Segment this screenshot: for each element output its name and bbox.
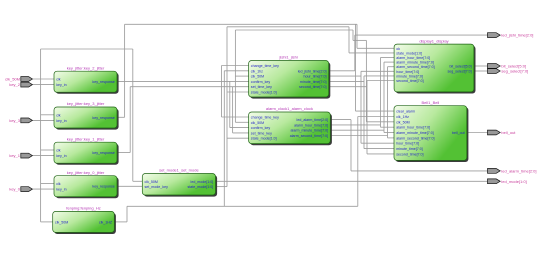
svg-text:key_jitter:key_1_jitter: key_jitter:key_1_jitter [67, 136, 105, 141]
svg-text:key_in: key_in [56, 119, 66, 123]
svg-text:minute_time[7:0]: minute_time[7:0] [396, 74, 423, 78]
svg-text:key_response: key_response [92, 151, 114, 155]
svg-text:clk_50M: clk_50M [55, 220, 68, 224]
svg-text:fenping:fenping_Hz: fenping:fenping_Hz [66, 206, 100, 211]
svg-text:second_time[7:0]: second_time[7:0] [299, 85, 326, 89]
svg-text:state_mode[1:0]: state_mode[1:0] [251, 91, 277, 95]
svg-text:alarm_hour_time[7:0]: alarm_hour_time[7:0] [396, 56, 430, 60]
svg-text:alarm_hour_time[7:0]: alarm_hour_time[7:0] [294, 123, 328, 127]
svg-text:clk_50M: clk_50M [145, 180, 158, 184]
svg-text:minute_time[7:0]: minute_time[7:0] [396, 147, 423, 151]
svg-text:change_time_key: change_time_key [251, 116, 279, 120]
svg-text:clk: clk [56, 78, 61, 82]
svg-text:confirm_key: confirm_key [251, 126, 271, 130]
svg-text:clk_50M: clk_50M [396, 120, 409, 124]
svg-text:alarm_minute_time[7:0]: alarm_minute_time[7:0] [396, 61, 434, 65]
svg-text:bell_out: bell_out [501, 130, 516, 135]
svg-text:set_time_key: set_time_key [251, 85, 272, 89]
svg-text:second_time[7:0]: second_time[7:0] [396, 79, 423, 83]
svg-text:alarm_second_time[7:0]: alarm_second_time[7:0] [396, 65, 434, 69]
svg-text:change_time_key: change_time_key [251, 64, 279, 68]
svg-text:key_1: key_1 [9, 153, 20, 158]
svg-text:confirm_key: confirm_key [251, 80, 271, 84]
svg-text:key_3: key_3 [9, 118, 20, 123]
svg-text:second_time[7:0]: second_time[7:0] [396, 152, 423, 156]
svg-text:alarm_minute_time[7:0]: alarm_minute_time[7:0] [396, 131, 434, 135]
svg-text:clk: clk [56, 149, 61, 153]
svg-text:bell_out: bell_out [452, 131, 465, 135]
svg-text:alarm_second_time[7:0]: alarm_second_time[7:0] [396, 136, 434, 140]
svg-text:seg_select[7:0]: seg_select[7:0] [448, 70, 472, 74]
svg-text:bit_select[5:0]: bit_select[5:0] [450, 65, 472, 69]
svg-text:key_jitter:key_2_jitter: key_jitter:key_2_jitter [67, 65, 105, 70]
svg-text:clk_1HZ: clk_1HZ [99, 220, 113, 224]
svg-text:key_in: key_in [56, 83, 66, 87]
svg-text:set_mode1_set_mode: set_mode1_set_mode [159, 168, 199, 173]
svg-text:key_response: key_response [92, 185, 114, 189]
svg-text:seg_select[7:0]: seg_select[7:0] [501, 69, 528, 74]
svg-text:clear_alarm: clear_alarm [396, 110, 415, 114]
svg-text:led_alarm_time[2:0]: led_alarm_time[2:0] [501, 169, 536, 174]
svg-text:state_mode[1:0]: state_mode[1:0] [251, 137, 277, 141]
svg-text:hour_time[7:0]: hour_time[7:0] [396, 70, 419, 74]
svg-text:minute_time[7:0]: minute_time[7:0] [300, 80, 327, 84]
svg-text:clk_50M: clk_50M [251, 75, 264, 79]
svg-text:display1_display: display1_display [419, 38, 448, 43]
svg-text:led_jishi_time[2:0]: led_jishi_time[2:0] [298, 69, 327, 73]
svg-text:jishi1_jishi: jishi1_jishi [278, 55, 297, 60]
svg-text:led_alarm_time[2:0]: led_alarm_time[2:0] [297, 118, 329, 122]
svg-text:clk_1Hz: clk_1Hz [396, 115, 409, 119]
svg-text:set_mode_key: set_mode_key [145, 185, 169, 189]
svg-text:clk_50M: clk_50M [5, 77, 20, 82]
svg-text:key_jitter:key_3_jitter: key_jitter:key_3_jitter [67, 101, 105, 106]
svg-text:key_0: key_0 [9, 187, 20, 192]
svg-text:ok: ok [396, 47, 400, 51]
svg-text:key_in: key_in [56, 154, 66, 158]
svg-text:state_mode[1:0]: state_mode[1:0] [188, 185, 214, 189]
svg-text:clk: clk [56, 113, 61, 117]
svg-text:alarm_hour_time[7:0]: alarm_hour_time[7:0] [396, 126, 430, 130]
svg-text:clk_1hz: clk_1hz [251, 69, 263, 73]
svg-text:Bell1_Bell: Bell1_Bell [422, 100, 440, 105]
svg-text:key_jitter:key_0_jitter: key_jitter:key_0_jitter [67, 170, 105, 175]
svg-text:key_response: key_response [92, 116, 114, 120]
svg-text:led_mode[1:0]: led_mode[1:0] [501, 179, 526, 184]
svg-text:alarm_minute_time[7:0]: alarm_minute_time[7:0] [291, 129, 329, 133]
svg-text:key_2: key_2 [9, 82, 20, 87]
svg-text:hour_time[7:0]: hour_time[7:0] [396, 142, 419, 146]
svg-text:alarm_clock1_alarm_clock: alarm_clock1_alarm_clock [266, 106, 313, 111]
svg-text:key_response: key_response [92, 80, 114, 84]
svg-text:led_jishi_time[2:0]: led_jishi_time[2:0] [501, 33, 533, 38]
svg-text:key_in: key_in [56, 188, 66, 192]
svg-text:clk: clk [56, 182, 61, 186]
svg-text:set_time_key: set_time_key [251, 131, 272, 135]
svg-text:state_mode[1:0]: state_mode[1:0] [396, 51, 422, 55]
svg-text:led_mode[1:0]: led_mode[1:0] [191, 180, 214, 184]
svg-text:hour_time[7:0]: hour_time[7:0] [304, 75, 327, 79]
svg-text:clk_50M: clk_50M [251, 121, 264, 125]
svg-text:alarm_second_time[7:0]: alarm_second_time[7:0] [290, 134, 328, 138]
